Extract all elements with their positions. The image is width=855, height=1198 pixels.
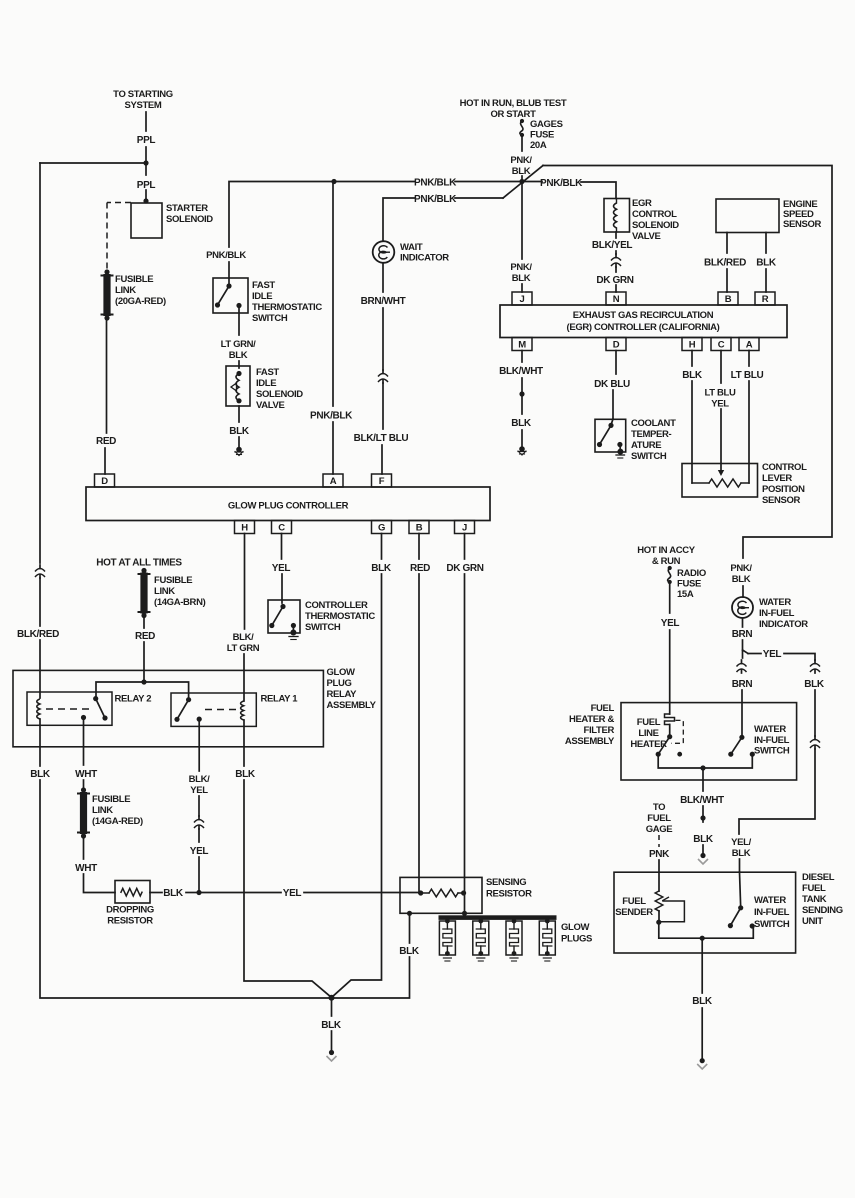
svg-text:FUSIBLE: FUSIBLE	[115, 274, 153, 285]
svg-text:BLK: BLK	[756, 258, 777, 269]
label WHT (upper)	[75, 769, 97, 780]
dashed wire to fuel gage	[658, 835, 660, 847]
svg-text:LINK: LINK	[115, 285, 136, 296]
svg-text:BLK: BLK	[229, 426, 250, 437]
svg-text:BRN: BRN	[732, 629, 753, 640]
wire BLK/RED to terminal B	[726, 269, 728, 292]
label BLK/LT BLU	[354, 433, 409, 444]
terminal D (EGR controller)	[606, 338, 626, 351]
connector break (wait indicator wire)	[378, 370, 388, 383]
svg-text:BLK: BLK	[732, 848, 751, 859]
fuel line heater switch	[656, 725, 682, 757]
svg-text:GLOW: GLOW	[327, 667, 356, 678]
label BLK/YEL	[189, 774, 210, 796]
relay 1 dashed armature link	[205, 709, 236, 711]
svg-text:PPL: PPL	[137, 135, 156, 146]
svg-text:RESISTOR: RESISTOR	[486, 889, 532, 900]
label sensing resistor	[486, 877, 532, 900]
label BLK/LT GRN	[227, 632, 260, 654]
ground (M column)	[518, 430, 526, 455]
svg-text:G: G	[378, 523, 385, 534]
svg-text:15A: 15A	[677, 589, 694, 600]
fuse GAGES 20A symbol	[520, 119, 524, 137]
label BLK (sensing resistor)	[399, 946, 420, 957]
label YEL/BLK	[731, 837, 751, 859]
svg-text:PNK/BLK: PNK/BLK	[310, 411, 353, 422]
relay 1 coil	[241, 701, 244, 720]
svg-text:PNK/: PNK/	[510, 155, 532, 166]
wire tank unit bottom bus	[659, 922, 754, 941]
label BRN/WHT	[361, 296, 406, 307]
wire PPL to junction	[143, 147, 148, 175]
wire YEL/BLK upper	[739, 859, 741, 872]
fusible link (20GA-RED)	[102, 269, 113, 320]
svg-text:GLOW PLUG CONTROLLER: GLOW PLUG CONTROLLER	[228, 501, 349, 512]
connector break (BLK wire lower)	[810, 736, 820, 749]
svg-text:WATER: WATER	[754, 895, 786, 906]
wire H down	[691, 351, 693, 367]
svg-text:BLK: BLK	[804, 679, 825, 690]
label LT GRN/BLK	[221, 339, 257, 361]
wire BRN to YEL branch	[742, 640, 744, 658]
svg-text:FAST: FAST	[252, 280, 275, 291]
svg-text:HOT IN RUN, BLUB TEST: HOT IN RUN, BLUB TEST	[460, 98, 567, 109]
svg-text:SENSING: SENSING	[486, 877, 526, 888]
label RADIO FUSE 15A	[677, 568, 706, 600]
svg-text:BLK: BLK	[682, 370, 703, 381]
wire BLK below tank unit	[701, 938, 703, 993]
svg-text:LT BLU: LT BLU	[705, 388, 736, 399]
wire PPL drop from starting system	[145, 112, 147, 131]
wire BLK/LT GRN into relay 1 coil	[243, 654, 245, 701]
dashed link starter solenoid to fusible link	[107, 203, 131, 270]
svg-text:BLK/LT BLU: BLK/LT BLU	[354, 433, 409, 444]
svg-text:PNK/BLK: PNK/BLK	[414, 194, 457, 205]
svg-text:POSITION: POSITION	[762, 484, 805, 495]
ground (tank unit)	[697, 1008, 707, 1069]
terminal H (EGR controller)	[682, 338, 702, 351]
label YEL (bus)	[283, 888, 302, 899]
label DK GRN	[596, 275, 633, 286]
wire to BLK/RED label	[39, 578, 41, 626]
wire YEL to fuel line heater	[669, 630, 671, 714]
svg-text:N: N	[613, 294, 620, 305]
svg-text:RED: RED	[135, 631, 155, 642]
wire to terminal J	[521, 284, 523, 292]
sensing resistor	[400, 877, 482, 913]
svg-text:BLK: BLK	[321, 1020, 342, 1031]
label water in-fuel switch (tank unit)	[754, 895, 790, 930]
connector break (BRN wire)	[737, 660, 747, 673]
label PNK	[649, 849, 670, 860]
svg-text:C: C	[718, 340, 725, 351]
label BLK (right branch)	[804, 679, 825, 690]
wire BLK relay2 to bottom junction	[40, 780, 332, 998]
bottom ground	[327, 1031, 337, 1061]
svg-text:& RUN: & RUN	[652, 556, 681, 567]
dropping resistor	[115, 881, 150, 904]
svg-text:WATER: WATER	[759, 597, 791, 608]
wire BLK below sensing resistor	[407, 911, 412, 943]
wire C down	[720, 351, 722, 384]
svg-text:STARTER: STARTER	[166, 203, 208, 214]
terminal C (glow plug controller)	[272, 521, 292, 534]
svg-text:THERMOSTATIC: THERMOSTATIC	[305, 611, 375, 622]
svg-text:CONTROL: CONTROL	[762, 462, 807, 473]
svg-text:DK BLU: DK BLU	[594, 379, 630, 390]
terminal H (glow plug controller)	[235, 521, 255, 534]
svg-text:A: A	[746, 340, 753, 351]
svg-text:DK GRN: DK GRN	[446, 563, 483, 574]
svg-text:M: M	[518, 340, 526, 351]
wire RED to terminal D	[104, 448, 106, 474]
svg-text:COOLANT: COOLANT	[631, 418, 676, 429]
svg-text:TANK: TANK	[802, 894, 827, 905]
label BLK (speed sensor)	[756, 258, 777, 269]
fusible link (14GA-BRN)	[139, 568, 150, 618]
wire LT GRN/BLK lower	[238, 361, 240, 368]
bottom junction node	[329, 995, 335, 1001]
wire A to position sensor	[748, 381, 750, 483]
node: TO FUEL GAGE	[646, 802, 673, 835]
wire BLK to bottom ground	[331, 998, 333, 1016]
wire BLK/WHT upper	[702, 768, 704, 791]
svg-text:WAIT: WAIT	[400, 242, 423, 253]
svg-text:R: R	[762, 294, 769, 305]
label BLK (G column)	[371, 563, 392, 574]
wire PNK/BLK top-right run	[543, 166, 832, 559]
svg-text:BRN/WHT: BRN/WHT	[361, 296, 406, 307]
coolant temperature switch	[595, 419, 626, 458]
glow plug relay assembly box	[13, 670, 323, 746]
wire YEL upper	[198, 829, 200, 842]
wire D down	[615, 351, 617, 375]
label water in-fuel indicator	[759, 597, 808, 630]
controller thermostatic switch	[268, 600, 300, 640]
label BLK (heater ground)	[693, 834, 714, 845]
connector break (BLK wire top)	[810, 660, 820, 673]
wire YEL from terminal C	[281, 534, 283, 560]
label fusible link 14GA-BRN	[154, 575, 206, 608]
label BLK (bottom ground)	[321, 1020, 342, 1031]
svg-text:UNIT: UNIT	[802, 916, 823, 927]
water in-fuel switch (tank unit)	[728, 905, 755, 928]
terminal J (glow plug controller)	[455, 521, 475, 534]
label BLK (relay 1 coil)	[235, 769, 256, 780]
svg-text:YEL: YEL	[661, 618, 680, 629]
wire YEL to junction	[198, 857, 200, 893]
node: TO STARTING SYSTEM	[113, 89, 173, 111]
terminal J (EGR controller)	[512, 292, 532, 305]
water in-fuel switch (heater assembly)	[728, 735, 755, 757]
wire BLK/RED upper	[726, 233, 728, 254]
wire WHT upper	[83, 718, 85, 766]
svg-text:H: H	[241, 523, 248, 534]
svg-text:BLK/: BLK/	[189, 774, 210, 785]
label RED	[96, 436, 116, 447]
wire PNK/BLK top line (to fast idle switch)	[229, 182, 415, 248]
svg-text:DK GRN: DK GRN	[596, 275, 633, 286]
ground (heater assembly)	[698, 845, 708, 864]
terminal A (glow plug controller)	[323, 474, 343, 487]
wire relay feed split	[96, 679, 189, 699]
svg-text:YEL: YEL	[190, 785, 208, 796]
starter solenoid	[131, 203, 213, 238]
label LT BLU	[731, 370, 764, 381]
label YEL (relay 1 wire)	[190, 846, 209, 857]
ground (fast idle solenoid)	[235, 437, 243, 456]
label DK BLU	[594, 379, 630, 390]
svg-text:BLK: BLK	[512, 166, 531, 177]
label DK GRN (J column)	[446, 563, 483, 574]
svg-text:SWITCH: SWITCH	[252, 313, 288, 324]
label fast idle thermostatic switch	[252, 280, 322, 324]
svg-text:(20GA-RED): (20GA-RED)	[115, 296, 166, 307]
wire to EGR control solenoid valve	[581, 182, 616, 199]
wire diagonal to fuse feed	[503, 166, 543, 199]
svg-text:VALVE: VALVE	[632, 231, 661, 242]
svg-text:FILTER: FILTER	[584, 725, 615, 736]
svg-text:SOLENOID: SOLENOID	[166, 214, 213, 225]
svg-text:EGR: EGR	[632, 198, 652, 209]
label fusible link 14GA-RED	[92, 794, 143, 827]
wire BLK upper	[765, 233, 767, 254]
wire PNK/BLK top line right + junctions	[331, 179, 524, 184]
svg-text:GAGES: GAGES	[530, 119, 563, 130]
label fuel line heater	[630, 717, 667, 750]
label YEL (branch)	[763, 649, 782, 660]
terminal R (EGR controller)	[755, 292, 775, 305]
wire YEL bus left	[199, 892, 281, 894]
svg-text:FAST: FAST	[256, 367, 279, 378]
label BLK (fast idle)	[229, 426, 250, 437]
label PPL (lower)	[137, 180, 156, 191]
svg-text:BLK: BLK	[399, 946, 420, 957]
svg-text:BLK: BLK	[229, 350, 248, 361]
svg-text:BLK: BLK	[371, 563, 392, 574]
svg-text:IN-FUEL: IN-FUEL	[754, 907, 790, 918]
svg-text:RADIO: RADIO	[677, 568, 706, 579]
svg-text:SWITCH: SWITCH	[754, 919, 790, 930]
label BLK (tank ground)	[692, 996, 713, 1007]
wire YEL upper (fuel heater)	[669, 584, 671, 613]
svg-text:RED: RED	[410, 563, 430, 574]
svg-text:(EGR) CONTROLLER (CALIFORNIA): (EGR) CONTROLLER (CALIFORNIA)	[567, 322, 720, 333]
terminal A (EGR controller)	[739, 338, 759, 351]
svg-text:20A: 20A	[530, 140, 547, 151]
control lever position sensor	[682, 464, 758, 498]
wire BRN/WHT lower	[382, 308, 384, 370]
svg-text:RELAY 1: RELAY 1	[261, 694, 299, 705]
svg-text:LINK: LINK	[154, 586, 175, 597]
svg-text:ASSEMBLY: ASSEMBLY	[565, 736, 615, 747]
svg-text:D: D	[613, 340, 620, 351]
terminal F (glow plug controller)	[372, 474, 392, 487]
svg-text:PNK/BLK: PNK/BLK	[540, 178, 583, 189]
label PNK/BLK (second line)	[414, 194, 457, 205]
wire BLK to terminal R	[765, 269, 767, 292]
terminal G (glow plug controller)	[372, 521, 392, 534]
relay 2 contacts	[81, 696, 108, 721]
label BLK (M column)	[511, 418, 532, 429]
glow plug 2	[473, 919, 489, 961]
svg-text:IDLE: IDLE	[252, 291, 272, 302]
wire A down	[748, 351, 750, 367]
wire RED from terminal B	[418, 534, 420, 560]
svg-text:YEL: YEL	[190, 846, 209, 857]
svg-text:WATER: WATER	[754, 724, 786, 735]
wire BLK relay1 to bottom junction	[244, 780, 332, 998]
wire BRN upper	[742, 618, 744, 627]
svg-text:(14GA-RED): (14GA-RED)	[92, 816, 143, 827]
svg-text:YEL: YEL	[272, 563, 291, 574]
connector break (EGR solenoid)	[611, 251, 621, 272]
wire C wiper arrow to position sensor	[718, 409, 724, 476]
svg-text:SYSTEM: SYSTEM	[125, 100, 162, 111]
label RED (B column)	[410, 563, 430, 574]
wire WHT lower	[83, 838, 85, 859]
svg-text:FUSE: FUSE	[677, 579, 701, 590]
label BLK/RED	[17, 629, 59, 640]
svg-text:H: H	[689, 340, 696, 351]
svg-text:INDICATOR: INDICATOR	[400, 253, 449, 264]
engine speed sensor	[716, 199, 822, 233]
wait indicator lamp	[373, 241, 395, 263]
fusible link (14GA-RED)	[78, 787, 89, 838]
svg-text:LINK: LINK	[92, 805, 113, 816]
svg-text:YEL/: YEL/	[731, 837, 751, 848]
label PNK/BLK (fuse output)	[510, 155, 532, 177]
wire RED upper (relay feed)	[143, 617, 145, 628]
label fusible link 20GA-RED	[115, 274, 166, 307]
label PNK/BLK (top line)	[414, 178, 457, 189]
terminal B (EGR controller)	[718, 292, 738, 305]
svg-text:INDICATOR: INDICATOR	[759, 619, 808, 630]
wire BLK to ground (M)	[519, 378, 524, 414]
wire BRN/WHT upper	[382, 263, 384, 292]
svg-text:BLK: BLK	[693, 834, 714, 845]
label water in-fuel switch (heater assembly)	[754, 724, 790, 757]
svg-text:CONTROLLER: CONTROLLER	[305, 600, 368, 611]
wire RED to sensing resistor	[418, 574, 420, 893]
svg-text:PNK: PNK	[649, 849, 670, 860]
svg-text:FUEL: FUEL	[802, 883, 826, 894]
svg-text:HOT AT ALL TIMES: HOT AT ALL TIMES	[96, 558, 182, 569]
svg-text:FUEL: FUEL	[591, 703, 615, 714]
svg-text:LINE: LINE	[638, 728, 658, 739]
glow plug bus bar	[439, 915, 557, 920]
wire BLK/YEL upper	[198, 719, 200, 771]
fuse RADIO 15A symbol	[668, 566, 672, 584]
connector break (left wire)	[35, 565, 45, 578]
fuel sender	[655, 891, 684, 925]
wire PNK/BLK second line (to wait indicator)	[383, 198, 415, 241]
fast idle thermostatic switch	[213, 278, 248, 313]
label PNK/BLK (indicator feed)	[730, 563, 752, 585]
svg-text:SWITCH: SWITCH	[754, 746, 790, 757]
svg-text:SWITCH: SWITCH	[305, 622, 341, 633]
glow plug 4	[539, 919, 555, 961]
wire BLK from dropping resistor	[150, 892, 162, 894]
svg-text:GLOW: GLOW	[561, 922, 590, 933]
svg-text:BLK: BLK	[512, 273, 531, 284]
fast idle solenoid valve	[226, 366, 250, 406]
svg-text:TO STARTING: TO STARTING	[113, 89, 173, 100]
svg-text:B: B	[416, 523, 423, 534]
svg-text:PLUG: PLUG	[327, 678, 352, 689]
svg-text:IDLE: IDLE	[256, 378, 276, 389]
wire sensing resistor to glow plug bus	[462, 893, 467, 916]
label WHT (lower)	[75, 863, 97, 874]
fuel heater and filter assembly box	[621, 703, 797, 780]
glow plug 1	[439, 919, 455, 961]
svg-text:F: F	[379, 476, 385, 487]
label BLK (dropping resistor)	[163, 888, 184, 899]
svg-text:CONTROL: CONTROL	[632, 209, 677, 220]
svg-text:YEL: YEL	[763, 649, 782, 660]
terminal M (EGR controller)	[512, 338, 532, 351]
svg-text:C: C	[278, 523, 285, 534]
wire WHT to dropping resistor	[84, 874, 116, 893]
wire DK GRN to sensing resistor	[464, 574, 466, 893]
label glow plug relay assembly	[327, 667, 377, 711]
EGR control solenoid valve	[604, 199, 630, 233]
terminal C (EGR controller)	[711, 338, 731, 351]
wire WHT to fusible link	[83, 780, 85, 789]
terminal N (EGR controller)	[606, 292, 626, 305]
wire YEL branch left	[743, 650, 762, 654]
svg-text:IN-FUEL: IN-FUEL	[754, 735, 790, 746]
fuel line heater element	[665, 714, 675, 725]
label BLK/RED	[704, 258, 746, 269]
wire H to position sensor	[691, 381, 693, 483]
svg-text:ASSEMBLY: ASSEMBLY	[327, 700, 377, 711]
svg-text:BLK: BLK	[732, 574, 751, 585]
svg-text:FUSE: FUSE	[530, 130, 554, 141]
wire gages fuse to junction	[521, 137, 523, 182]
wire YEL/BLK into tank sending unit	[740, 872, 741, 908]
label YEL (fuel heater feed)	[661, 618, 680, 629]
terminal B (glow plug controller)	[409, 521, 429, 534]
svg-text:WHT: WHT	[75, 769, 97, 780]
dashed link fuel line heater switch	[671, 720, 683, 743]
svg-text:FUSIBLE: FUSIBLE	[92, 794, 130, 805]
wire junction to left branch	[40, 162, 146, 164]
svg-text:D: D	[101, 476, 108, 487]
svg-text:DIESEL: DIESEL	[802, 872, 835, 883]
svg-text:PNK/: PNK/	[510, 262, 532, 273]
wire BLK/WHT lower	[700, 806, 705, 822]
svg-text:B: B	[725, 294, 732, 305]
svg-text:BLK: BLK	[30, 769, 51, 780]
svg-text:FUEL: FUEL	[622, 896, 646, 907]
connector break (relay 1 wire)	[194, 816, 204, 829]
wire BLK/RED into relay 2 coil	[39, 640, 41, 698]
wire BLK/LT BLU upper	[382, 383, 384, 429]
svg-text:BLK/RED: BLK/RED	[704, 258, 746, 269]
wire into water in-fuel indicator	[742, 586, 744, 597]
svg-text:HEATER &: HEATER &	[569, 714, 615, 725]
svg-text:LT GRN: LT GRN	[227, 643, 260, 654]
label glow plugs	[561, 922, 592, 945]
terminal D (glow plug controller)	[95, 474, 115, 487]
svg-text:EXHAUST GAS RECIRCULATION: EXHAUST GAS RECIRCULATION	[573, 310, 714, 321]
svg-text:BLK/YEL: BLK/YEL	[592, 240, 633, 251]
svg-text:PNK/: PNK/	[730, 563, 752, 574]
diesel fuel tank sending unit box	[614, 872, 796, 953]
wire BLK right branch	[814, 690, 816, 736]
node: HOT IN RUN BULB TEST OR START	[460, 98, 567, 120]
